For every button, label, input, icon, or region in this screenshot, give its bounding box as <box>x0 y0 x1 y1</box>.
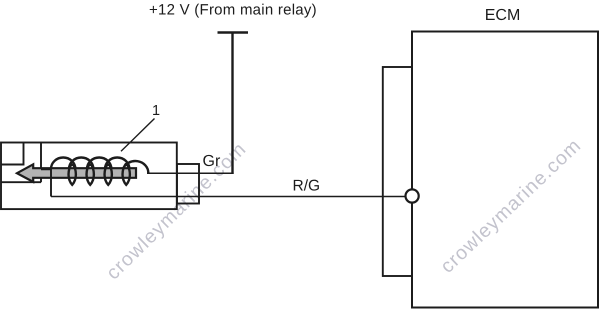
svg-text:ECM: ECM <box>485 7 521 24</box>
ECM connector <box>383 67 412 276</box>
svg-text:R/G: R/G <box>293 178 321 195</box>
flow arrow (plunger) <box>17 164 136 182</box>
wire R/G (coil to ECM pin) <box>51 196 406 198</box>
wire from +12V down to Gr wire <box>231 33 233 174</box>
leader line for label 1 <box>121 119 155 152</box>
coil left terminal wire <box>50 168 52 197</box>
ECM box <box>412 32 598 308</box>
svg-text:Gr: Gr <box>203 153 221 170</box>
svg-text:1: 1 <box>152 103 160 119</box>
injector top-left chamber <box>1 143 24 165</box>
injector 1 outer housing <box>1 143 177 210</box>
injector connector <box>177 164 199 204</box>
svg-text:+12 V (From main relay): +12 V (From main relay) <box>149 1 317 18</box>
ECM pin <box>406 189 419 202</box>
wire Gr (coil to +12V) <box>147 172 234 174</box>
+12V supply terminal bar <box>218 31 249 34</box>
injector internal partition <box>1 143 41 183</box>
solenoid coil <box>41 158 148 185</box>
